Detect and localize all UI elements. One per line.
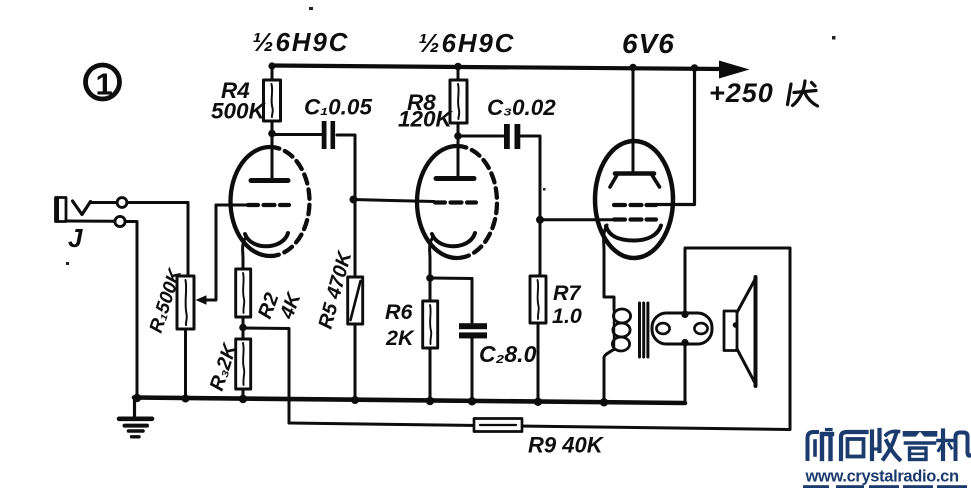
svg-text:J: J (68, 223, 83, 253)
svg-text:1.0: 1.0 (552, 304, 582, 328)
svg-text:6V6: 6V6 (622, 28, 675, 59)
svg-text:C₂8.0: C₂8.0 (479, 341, 537, 367)
svg-text:1: 1 (96, 67, 113, 102)
svg-text:+250: +250 (709, 78, 774, 108)
svg-text:120K: 120K (398, 107, 454, 132)
svg-text:2K: 2K (385, 326, 415, 350)
svg-text:R7: R7 (553, 281, 582, 305)
svg-text:www.crystalradio.cn: www.crystalradio.cn (805, 468, 959, 486)
svg-text:½6H9C: ½6H9C (418, 28, 515, 58)
svg-text:500K: 500K (211, 99, 267, 124)
svg-text:R9 40K: R9 40K (528, 433, 605, 458)
svg-text:½6H9C: ½6H9C (252, 27, 349, 57)
svg-text:R6: R6 (385, 300, 414, 324)
svg-text:C₃0.02: C₃0.02 (487, 95, 556, 120)
svg-text:C₁0.05: C₁0.05 (304, 95, 372, 120)
